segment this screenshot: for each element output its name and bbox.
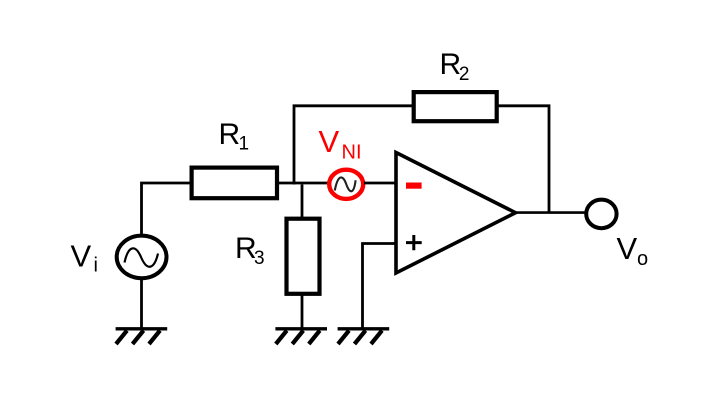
svg-text:i: i	[94, 255, 98, 277]
op-amp U1 triangle	[396, 153, 516, 274]
wire VNI-to-opamp	[364, 182, 396, 185]
svg-text:2: 2	[459, 64, 470, 85]
output terminal Vo circle	[586, 200, 616, 229]
op-amp inverting input minus (red)	[406, 183, 422, 189]
voltage source Vi	[117, 236, 167, 279]
wire R3-to-ground	[301, 293, 304, 329]
wire Vi-to-ground	[140, 278, 143, 329]
op-amp non-inverting input plus	[406, 235, 422, 250]
svg-text:R: R	[219, 118, 241, 151]
wire R1-to-node-A	[277, 182, 328, 185]
resistor R3	[287, 219, 320, 294]
voltage source Vi sine	[125, 248, 159, 266]
noise source VNI sine	[335, 177, 356, 191]
wire opamp-output	[516, 211, 586, 214]
svg-text:V: V	[319, 124, 340, 159]
svg-text:o: o	[637, 248, 648, 270]
node A feedback riser wire	[294, 106, 414, 185]
wire node-A-to-R3	[301, 185, 304, 221]
ground under Vi	[116, 329, 168, 344]
ground under plus input	[338, 329, 390, 344]
noise source VNI (red)	[329, 170, 363, 199]
svg-text:1: 1	[239, 133, 250, 154]
svg-text:NI: NI	[342, 141, 362, 163]
svg-text:3: 3	[254, 248, 265, 269]
resistor R1	[192, 168, 277, 199]
resistor R2	[414, 92, 497, 121]
wire plus-input-to-ground	[363, 244, 397, 330]
ground under R3	[275, 329, 327, 344]
svg-text:V: V	[617, 231, 638, 266]
wire Vi-to-R1 (up from source then right)	[142, 183, 192, 235]
wire R2-to-output-node	[497, 106, 549, 213]
svg-text:V: V	[71, 239, 92, 274]
